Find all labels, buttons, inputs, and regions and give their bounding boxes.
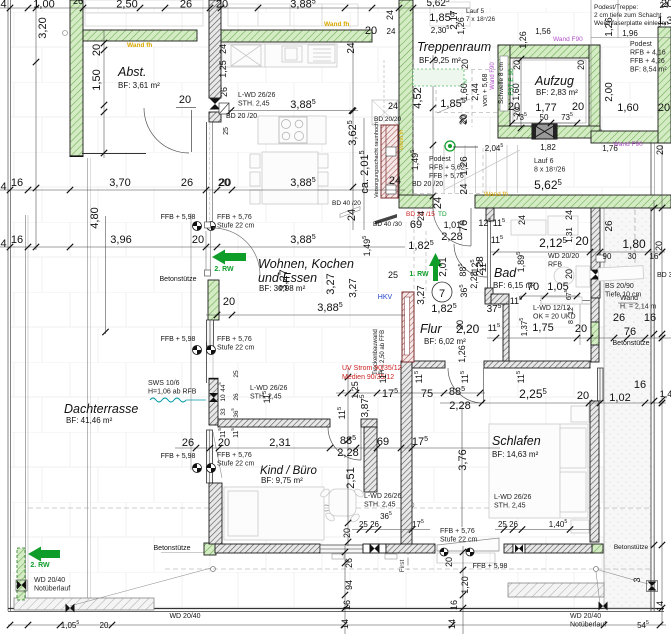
svg-text:1,02: 1,02 [609, 392, 630, 404]
svg-text:20: 20 [572, 101, 584, 113]
svg-text:FFB + 5,98: FFB + 5,98 [161, 214, 196, 221]
wall left exterior green [70, 0, 83, 156]
svg-text:20: 20 [458, 115, 468, 125]
svg-text:Schlafen: Schlafen [492, 434, 541, 448]
svg-text:20: 20 [575, 323, 587, 335]
svg-text:Wand F90: Wand F90 [613, 141, 643, 148]
svg-text:1,20: 1,20 [460, 576, 470, 594]
door bad arc [454, 244, 487, 277]
wall kitchen top green [221, 30, 372, 42]
svg-text:2,28: 2,28 [449, 400, 470, 412]
left green dashed stub [17, 548, 25, 600]
svg-text:BF: 14,63 m²: BF: 14,63 m² [492, 450, 539, 459]
svg-text:Wand fh: Wand fh [127, 42, 152, 49]
svg-text:20: 20 [658, 102, 670, 114]
kind round table [319, 487, 365, 523]
Trockenbauwand [402, 292, 414, 362]
svg-text:20: 20 [455, 320, 465, 330]
svg-text:2. RW: 2. RW [30, 562, 50, 569]
svg-text:L-WD 12/12 OK = 20 UKD: L-WD 12/12 OK = 20 UKD [533, 305, 576, 321]
svg-text:HKV: HKV [378, 294, 393, 301]
x-box near shaft top [372, 100, 398, 125]
svg-text:25 26: 25 26 [498, 520, 519, 529]
terrace left edge [25, 215, 27, 608]
svg-text:WD 20/40 Notüberlauf: WD 20/40 Notüberlauf [570, 613, 606, 629]
svg-text:24: 24 [389, 175, 401, 187]
svg-text:4: 4 [0, 0, 6, 11]
svg-text:Bad: Bad [494, 266, 517, 280]
svg-text:94: 94 [344, 580, 354, 590]
svg-text:24: 24 [346, 209, 358, 221]
svg-text:WD 20/40 Notüberlauf: WD 20/40 Notüberlauf [34, 577, 70, 593]
svg-text:20: 20 [179, 94, 191, 106]
svg-text:20: 20 [575, 234, 589, 248]
svg-text:1,25: 1,25 [218, 60, 228, 78]
svg-text:3,76: 3,76 [457, 449, 469, 470]
svg-text:ca. 2,015: ca. 2,015 [358, 150, 371, 193]
green pier window wall [208, 280, 219, 320]
kind top wall [218, 419, 330, 427]
green circle symbol [445, 141, 455, 151]
svg-text:WD 20/40: WD 20/40 [169, 613, 200, 620]
terrace leader lines [28, 507, 650, 509]
svg-text:2,44: 2,44 [470, 83, 480, 101]
svg-text:20: 20 [192, 234, 204, 246]
furniture [222, 44, 644, 540]
closet lines in niche [540, 300, 590, 302]
svg-text:1,75: 1,75 [532, 322, 553, 334]
svg-text:20: 20 [564, 269, 574, 279]
bad right wall lower [591, 298, 599, 362]
bottom terrace lines [165, 568, 651, 570]
svg-text:Wand fh: Wand fh [324, 21, 349, 28]
svg-text:1,34: 1,34 [657, 15, 671, 27]
podest dashed outline [412, 60, 414, 195]
door kind [328, 427, 361, 460]
svg-text:Betonstütze: Betonstütze [154, 545, 191, 552]
extra dim lines [336, 392, 485, 394]
svg-text:3,20: 3,20 [37, 17, 49, 38]
dim row y190 [0, 189, 405, 191]
svg-text:3,27: 3,27 [278, 269, 290, 290]
schlafen left wall [401, 361, 412, 545]
aufzug left wall [498, 45, 510, 138]
svg-text:24: 24 [660, 1, 669, 10]
svg-text:BF: 3,61 m²: BF: 3,61 m² [118, 81, 160, 90]
svg-text:1,50: 1,50 [91, 69, 103, 90]
svg-text:24: 24 [432, 197, 444, 209]
svg-text:2,31: 2,31 [269, 437, 290, 449]
green piece bottom right [592, 544, 603, 553]
svg-text:BD 20/20: BD 20/20 [374, 116, 401, 123]
svg-text:25: 25 [388, 270, 398, 280]
svg-text:24: 24 [459, 183, 470, 195]
schlafen right wall lower gray [590, 401, 599, 542]
svg-text:BF: 9,25 m²: BF: 9,25 m² [419, 56, 461, 65]
svg-text:1. RW: 1. RW [409, 271, 429, 278]
neighbour ghost [85, 0, 470, 26]
svg-text:24: 24 [388, 101, 398, 111]
svg-text:2,51: 2,51 [345, 467, 357, 488]
svg-text:BD 40 /30: BD 40 /30 [373, 221, 402, 228]
svg-text:20: 20 [91, 44, 103, 56]
svg-text:69: 69 [377, 436, 389, 448]
svg-text:24: 24 [517, 215, 527, 225]
svg-text:Schwelle 8 cm: Schwelle 8 cm [498, 62, 505, 104]
svg-text:3,27: 3,27 [325, 273, 337, 294]
svg-text:20: 20 [512, 60, 522, 70]
svg-text:FFB + 5,76 Stufe 22 cm: FFB + 5,76 Stufe 22 cm [217, 452, 255, 468]
svg-text:1,60: 1,60 [617, 102, 638, 114]
svg-text:33: 33 [220, 408, 227, 416]
svg-text:90: 90 [603, 252, 612, 261]
wall south of Treppenraum green west part [399, 195, 433, 208]
svg-text:Treppenraum: Treppenraum [417, 40, 491, 54]
svg-text:26: 26 [181, 177, 193, 189]
svg-text:2,01: 2,01 [438, 257, 449, 277]
svg-text:BF: 2,83 m²: BF: 2,83 m² [536, 88, 578, 97]
svg-text:4: 4 [0, 181, 6, 193]
bottom site border [8, 608, 664, 610]
bottom window kind [320, 545, 363, 553]
svg-text:20: 20 [576, 60, 586, 70]
svg-text:26: 26 [613, 312, 625, 324]
svg-text:2. RW: 2. RW [214, 266, 234, 273]
svg-text:26: 26 [344, 558, 354, 568]
wall Abst top green [83, 30, 197, 41]
svg-text:Betonstütze: Betonstütze [614, 544, 649, 551]
svg-text:14: 14 [447, 619, 457, 629]
svg-text:Betonstütze: Betonstütze [160, 276, 197, 283]
svg-text:70: 70 [527, 281, 539, 293]
green piece bottom left kind [204, 543, 216, 555]
svg-text:Abst.: Abst. [117, 65, 147, 79]
aufzug inner line [513, 60, 586, 123]
svg-text:24: 24 [416, 211, 426, 221]
svg-text:14: 14 [340, 619, 350, 629]
svg-text:16: 16 [342, 600, 352, 610]
svg-text:20: 20 [219, 177, 231, 189]
svg-text:4,52: 4,52 [412, 87, 424, 108]
svg-text:1,80: 1,80 [622, 237, 646, 251]
svg-text:1,26: 1,26 [459, 156, 470, 176]
svg-text:First: First [399, 559, 406, 572]
aufzug bottom wall [498, 126, 600, 138]
svg-text:24: 24 [564, 210, 574, 220]
svg-text:BF: 9,75 m²: BF: 9,75 m² [261, 476, 303, 485]
svg-text:Versorgungsschacht raumhoch: Versorgungsschacht raumhoch [374, 122, 380, 198]
svg-text:4: 4 [0, 238, 6, 250]
wall right horizontal green [591, 131, 671, 143]
svg-text:20: 20 [365, 25, 377, 37]
stove burners [279, 117, 307, 143]
svg-text:16: 16 [11, 177, 23, 189]
svg-text:1,56: 1,56 [535, 27, 551, 36]
svg-text:24: 24 [346, 42, 357, 54]
svg-text:25: 25 [223, 127, 230, 135]
stairs treads [444, 145, 520, 193]
step rects below wall [332, 554, 344, 559]
door schlafen [448, 368, 483, 403]
left site border [7, 0, 9, 611]
supply shaft [381, 125, 398, 198]
svg-text:BD 20 /20: BD 20 /20 [412, 181, 443, 188]
svg-text:2,17: 2,17 [449, 10, 460, 30]
svg-text:10: 10 [220, 394, 227, 402]
dim row top [0, 7, 470, 9]
ridge line (First) [407, 480, 409, 572]
svg-text:2,50: 2,50 [116, 0, 137, 11]
bad door leaf [487, 221, 489, 288]
abst door leaf [191, 110, 193, 152]
svg-text:16: 16 [644, 312, 656, 324]
schlafen top wall left [412, 361, 445, 368]
svg-text:20: 20 [577, 390, 589, 402]
svg-text:1,4: 1,4 [660, 389, 671, 399]
svg-text:26: 26 [219, 87, 229, 97]
level markers [193, 222, 202, 231]
svg-text:BF: 6,02 m²: BF: 6,02 m² [424, 337, 466, 346]
svg-text:24: 24 [385, 10, 395, 20]
svg-text:1,26: 1,26 [518, 31, 528, 49]
schlafen right window [598, 368, 604, 401]
svg-text:20: 20 [342, 528, 352, 538]
svg-text:2,28: 2,28 [441, 231, 462, 243]
svg-text:Wohnen, Kochen: Wohnen, Kochen [258, 257, 354, 271]
green arrows [212, 250, 246, 265]
svg-text:14: 14 [655, 601, 665, 611]
svg-text:Flur: Flur [420, 322, 442, 336]
svg-text:BF: 41,46 m²: BF: 41,46 m² [66, 416, 113, 425]
svg-text:Aufzug: Aufzug [534, 74, 574, 88]
svg-text:Wand F90: Wand F90 [553, 36, 583, 43]
svg-text:30: 30 [628, 252, 637, 261]
svg-text:7: 7 [439, 288, 445, 300]
svg-text:Betonstütze: Betonstütze [613, 340, 650, 347]
svg-text:4,80: 4,80 [89, 207, 101, 228]
svg-text:20: 20 [218, 437, 230, 449]
wall SW corner Wohnen [209, 379, 218, 425]
svg-text:FFB + 5,98: FFB + 5,98 [473, 563, 508, 570]
terrace door leaves [437, 538, 499, 551]
terrace inner edge [87, 158, 89, 607]
svg-text:von + 5,68: von + 5,68 [482, 73, 489, 106]
door post lines [205, 231, 207, 270]
svg-text:25 26: 25 26 [359, 520, 380, 529]
bottom X-box [363, 544, 386, 553]
svg-text:1,26: 1,26 [604, 17, 615, 37]
green pier SE schlafen [591, 322, 599, 345]
svg-text:1,00: 1,00 [33, 0, 54, 11]
svg-text:TD: TD [438, 211, 447, 218]
wall south of Treppenraum green east part [475, 195, 671, 208]
svg-text:FFB + 5,98: FFB + 5,98 [161, 336, 196, 343]
svg-text:1,77: 1,77 [535, 102, 556, 114]
svg-text:BD 20 /20: BD 20 /20 [226, 113, 257, 120]
svg-text:26: 26 [182, 437, 194, 449]
aufzug top wall [498, 45, 600, 58]
svg-text:50: 50 [540, 113, 549, 122]
kind/schlafen stub [364, 427, 377, 492]
door abst [144, 108, 487, 461]
svg-text:Wand F90: Wand F90 [490, 62, 496, 90]
svg-text:20: 20 [460, 59, 470, 69]
svg-text:25: 25 [233, 370, 240, 378]
wall Treppenraum left green [399, 0, 413, 197]
svg-text:20: 20 [655, 145, 665, 155]
door wohnen terrace [213, 228, 260, 275]
svg-text:BD 30: BD 30 [657, 272, 671, 279]
bottom-right hatch strip [508, 583, 604, 597]
svg-text:1,26: 1,26 [457, 345, 467, 363]
svg-text:FFB + 5,76 Stufe 22 cm: FFB + 5,76 Stufe 22 cm [217, 336, 255, 352]
svg-text:26: 26 [233, 393, 240, 401]
bad left wall top stub [486, 208, 494, 221]
svg-text:26: 26 [73, 0, 83, 6]
schlafen top wall right [484, 361, 590, 368]
svg-text:1,31: 1,31 [565, 227, 574, 243]
svg-text:Dachterrasse: Dachterrasse [64, 402, 138, 416]
svg-text:16: 16 [634, 379, 646, 391]
svg-text:26: 26 [180, 0, 192, 11]
svg-text:20: 20 [100, 621, 109, 630]
svg-text:3,27: 3,27 [348, 278, 359, 298]
aufzug door X-box [532, 124, 557, 139]
right stipple strip [604, 200, 651, 608]
svg-text:Wand fh: Wand fh [399, 130, 405, 150]
svg-text:24: 24 [218, 44, 228, 54]
svg-text:75: 75 [421, 388, 433, 400]
kind west window [207, 430, 213, 483]
svg-text:2,00: 2,00 [604, 82, 615, 102]
svg-text:20: 20 [223, 296, 235, 308]
svg-text:16: 16 [449, 600, 459, 610]
svg-text:Wand fh: Wand fh [484, 191, 508, 198]
svg-text:3,96: 3,96 [110, 234, 131, 246]
building bottom wall segments [215, 544, 320, 553]
wall right edge green [658, 27, 671, 143]
svg-text:1,96: 1,96 [622, 29, 638, 38]
svg-text:3,70: 3,70 [109, 177, 130, 189]
svg-text:20: 20 [654, 241, 664, 251]
svg-text:FFB + 5,98: FFB + 5,98 [161, 453, 196, 460]
svg-text:BD 40 /20: BD 40 /20 [332, 200, 361, 207]
aufzug right wall [589, 45, 600, 138]
svg-text:20: 20 [216, 0, 228, 11]
dim row y247 [0, 246, 405, 248]
svg-text:FST E 90: FST E 90 [508, 68, 515, 96]
bad right wall upper [591, 208, 600, 270]
aufzug door slot [500, 56, 508, 111]
svg-text:UV Strom 90/35/12: UV Strom 90/35/12 [342, 365, 402, 372]
dim row y315 [206, 314, 405, 316]
svg-text:20: 20 [512, 107, 522, 117]
thin wall below divider [206, 122, 208, 222]
bad corner walls [485, 288, 493, 304]
svg-text:16: 16 [650, 252, 659, 261]
svg-text:3: 3 [632, 577, 642, 582]
svg-text:3,27: 3,27 [416, 285, 427, 305]
kind left wall lower [209, 483, 222, 544]
svg-text:FFB + 5,76 Stufe 22 cm: FFB + 5,76 Stufe 22 cm [440, 528, 478, 544]
window wall west Wohnen glazing [207, 320, 214, 346]
svg-text:24: 24 [387, 27, 396, 36]
svg-text:2,28: 2,28 [469, 271, 479, 289]
svg-text:2,28: 2,28 [337, 447, 358, 459]
svg-text:16: 16 [11, 234, 23, 246]
svg-text:26: 26 [604, 220, 615, 232]
bottom-left hatch strip [14, 598, 154, 610]
wall Abst/kitchen divider [209, 0, 221, 98]
svg-text:76: 76 [624, 326, 636, 338]
abst bottom wall line [82, 153, 146, 155]
svg-text:20: 20 [444, 557, 454, 567]
door treppenraum [433, 208, 471, 246]
dim col left1 [35, 0, 37, 250]
dim col left2 [103, 31, 105, 158]
svg-text:FFB + 5,76 Stufe 22 cm: FFB + 5,76 Stufe 22 cm [217, 214, 255, 230]
svg-text:1,82: 1,82 [540, 143, 556, 152]
